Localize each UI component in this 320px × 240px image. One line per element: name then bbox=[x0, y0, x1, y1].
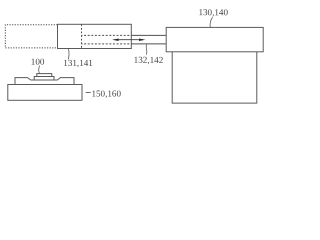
leader for 130,140 bbox=[210, 17, 212, 27]
beam channel bottom dashed line bbox=[82, 43, 132, 45]
ridge pedestal layer bbox=[34, 77, 54, 81]
internal dashed partition line bbox=[81, 24, 83, 48]
label 150,160 bbox=[91, 88, 121, 98]
svg-text:100: 100 bbox=[31, 57, 45, 67]
instrument pedestal box bbox=[172, 52, 257, 103]
svg-text:132,142: 132,142 bbox=[134, 55, 164, 65]
laser module box 131,141 (solid rectangle) bbox=[58, 24, 132, 48]
label 130,140 bbox=[198, 7, 228, 17]
label 100 bbox=[31, 57, 45, 67]
leader for 100 bbox=[38, 66, 41, 74]
optical fiber top line bbox=[131, 34, 166, 36]
ridge cap layer bbox=[37, 74, 52, 77]
beam channel top dashed line bbox=[82, 34, 132, 36]
svg-text:131,141: 131,141 bbox=[63, 58, 93, 68]
label 131,141 bbox=[63, 58, 93, 68]
leader for 132,142 bbox=[145, 44, 148, 54]
measuring instrument box 130,140 bbox=[166, 27, 263, 51]
svg-text:150,160: 150,160 bbox=[91, 88, 121, 98]
submount base 150,160 bbox=[8, 85, 82, 101]
leader for 150,160 bbox=[86, 92, 91, 94]
laser chip outline 100 bbox=[15, 78, 74, 85]
svg-text:130,140: 130,140 bbox=[198, 7, 228, 17]
dashed enclosure box (left, dashed outline) bbox=[5, 25, 57, 48]
double-headed light-path arrow bbox=[112, 38, 145, 41]
label 132,142 bbox=[134, 55, 164, 65]
chip groove bottom line bbox=[31, 79, 58, 81]
leader for 131,141 bbox=[67, 49, 70, 60]
optical fiber bottom line bbox=[131, 43, 166, 45]
